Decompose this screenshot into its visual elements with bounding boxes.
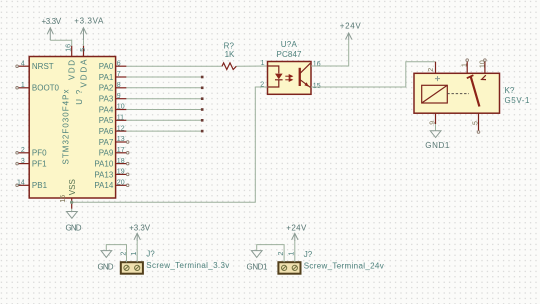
opto pin numbers xyxy=(260,60,320,90)
opto LED triangle xyxy=(275,74,283,80)
svg-text:16: 16 xyxy=(313,61,321,68)
opto transistor base bar xyxy=(299,68,301,86)
opto LED anode path xyxy=(268,66,279,73)
svg-text:PA14: PA14 xyxy=(94,181,114,190)
connector J1 pin numbers xyxy=(120,252,138,256)
connector J2 pin numbers xyxy=(278,252,296,256)
svg-text:4: 4 xyxy=(21,60,25,67)
svg-text:GND1: GND1 xyxy=(247,262,269,271)
connector J2 screw circles xyxy=(282,265,298,270)
svg-text:14: 14 xyxy=(17,180,25,187)
svg-text:15: 15 xyxy=(313,83,321,90)
connector J1 screw circles xyxy=(124,265,140,270)
relay dashed actuator line xyxy=(447,93,469,95)
ground GND at J1 xyxy=(101,251,112,258)
svg-text:VSS: VSS xyxy=(68,179,77,195)
svg-text:PA7: PA7 xyxy=(99,138,114,147)
svg-text:U?A: U?A xyxy=(281,40,298,49)
IC right pin names xyxy=(94,62,114,190)
svg-text:10: 10 xyxy=(117,104,125,111)
svg-text:1: 1 xyxy=(21,82,25,89)
IC left pin numbers xyxy=(17,60,25,186)
svg-text:19: 19 xyxy=(117,169,125,176)
svg-text:+24V: +24V xyxy=(286,224,307,233)
svg-text:GND: GND xyxy=(98,262,114,271)
svg-text:GND1: GND1 xyxy=(425,141,450,150)
wire resistor to opto pin1 xyxy=(236,65,267,67)
svg-text:PA0: PA0 xyxy=(99,62,114,71)
ground GND1 at J2 xyxy=(251,251,262,258)
relay armature xyxy=(471,77,480,107)
svg-text:7: 7 xyxy=(117,71,121,78)
svg-text:10: 10 xyxy=(480,60,487,68)
svg-text:+24V: +24V xyxy=(340,22,362,31)
wire opto pin15 to relay pin2 xyxy=(311,62,436,87)
svg-text:PA4: PA4 xyxy=(99,105,114,114)
svg-text:12: 12 xyxy=(117,125,125,132)
power +3.3VA symbol top xyxy=(74,17,104,41)
svg-text:1K: 1K xyxy=(225,50,235,59)
relay plus mark xyxy=(435,76,440,81)
svg-text:+3.3V: +3.3V xyxy=(129,224,151,233)
svg-text:PA10: PA10 xyxy=(94,160,114,169)
svg-text:2: 2 xyxy=(428,68,435,72)
relay NC contact bar xyxy=(467,75,474,78)
wire J1 pin2 to GND xyxy=(106,245,126,263)
wire J1 pin1 to +3.3V xyxy=(136,240,138,262)
svg-text:J?: J? xyxy=(146,249,155,258)
svg-text:PA1: PA1 xyxy=(99,73,114,82)
svg-text:NRST: NRST xyxy=(32,62,54,71)
IC top pin stubs VDD VDDA xyxy=(72,46,84,57)
connector J1 screw terminal 3.3v body xyxy=(121,262,143,274)
svg-text:6: 6 xyxy=(117,60,121,67)
IC right pin numbers xyxy=(117,60,125,186)
relay pin 1 stub with circle xyxy=(466,59,469,74)
svg-text:PB1: PB1 xyxy=(32,181,48,190)
relay pin 10 stub with circle xyxy=(484,59,487,74)
relay pin 2 stub xyxy=(435,62,437,74)
svg-text:PA13: PA13 xyxy=(94,170,114,179)
svg-text:17: 17 xyxy=(117,147,125,154)
opto U2A PC847 body xyxy=(268,62,312,95)
relay NO contact xyxy=(482,75,486,79)
svg-text:Screw_Terminal_3.3v: Screw_Terminal_3.3v xyxy=(146,261,229,270)
svg-text:Screw_Terminal_24v: Screw_Terminal_24v xyxy=(304,262,384,271)
wire opto pin16 to +24V xyxy=(311,40,349,66)
svg-text:PF1: PF1 xyxy=(32,160,47,169)
opto light arrows xyxy=(285,75,292,81)
svg-text:5: 5 xyxy=(80,48,87,52)
relay coil box xyxy=(422,85,448,103)
relay pin 9 stub xyxy=(435,113,437,124)
svg-text:PA5: PA5 xyxy=(99,116,114,125)
IC top pin numbers 16 5 xyxy=(66,44,88,52)
IC right pin stubs xyxy=(116,66,127,185)
relay coil diagonal xyxy=(422,85,448,103)
IC left pin stubs xyxy=(18,66,29,185)
IC U1 STM32F030F4Px body xyxy=(29,57,115,199)
resistor R1 zigzag xyxy=(222,63,236,70)
wire +3.3VA to VDDA xyxy=(83,40,85,45)
svg-text:GND: GND xyxy=(66,224,82,233)
svg-text:1: 1 xyxy=(462,63,469,67)
svg-text:15: 15 xyxy=(60,195,67,203)
svg-text:18: 18 xyxy=(117,158,125,165)
svg-text:13: 13 xyxy=(117,136,125,143)
wire PA0 to resistor xyxy=(126,65,222,67)
wire relay pin9 to GND1 xyxy=(435,124,437,131)
svg-text:PF0: PF0 xyxy=(32,149,47,158)
svg-text:VDD: VDD xyxy=(67,60,76,80)
svg-text:BOOT0: BOOT0 xyxy=(32,84,60,93)
junction at VSS xyxy=(70,201,73,204)
wire J2 pin1 to +24V xyxy=(294,240,296,262)
ground GND1 under relay xyxy=(430,131,441,138)
opto transistor emitter with arrow xyxy=(300,80,310,88)
IC left pin names xyxy=(32,62,60,190)
svg-text:PA3: PA3 xyxy=(99,95,114,104)
svg-text:K?: K? xyxy=(505,86,515,95)
svg-text:STM32F030F4Px: STM32F030F4Px xyxy=(62,90,71,165)
wire J2 pin2 to GND1 xyxy=(257,245,284,263)
svg-text:+3.3V: +3.3V xyxy=(42,17,62,26)
wire VSS to GND xyxy=(71,209,73,212)
IC bottom pin stub VSS xyxy=(71,198,73,209)
power +24V symbol top xyxy=(340,22,362,41)
power +3.3V symbol top xyxy=(42,17,62,40)
svg-text:PC847: PC847 xyxy=(277,50,303,59)
svg-text:R?: R? xyxy=(224,42,235,51)
svg-text:1: 1 xyxy=(261,60,265,67)
svg-text:8: 8 xyxy=(117,82,121,89)
svg-text:9: 9 xyxy=(117,93,121,100)
svg-text:2: 2 xyxy=(21,147,25,154)
svg-text:PA2: PA2 xyxy=(99,84,114,93)
svg-text:20: 20 xyxy=(117,180,125,187)
svg-text:+3.3VA: +3.3VA xyxy=(74,17,104,26)
svg-text:J?: J? xyxy=(304,250,313,259)
svg-text:3: 3 xyxy=(21,158,25,165)
wire +3.3V to VDD xyxy=(50,40,71,45)
opto transistor collector xyxy=(300,63,310,73)
power +3.3V symbol at J1 xyxy=(129,224,151,241)
svg-text:5: 5 xyxy=(473,121,480,125)
IC left pin dangling circles xyxy=(16,65,19,187)
power +24V symbol at J2 xyxy=(286,224,307,241)
ground GND under IC xyxy=(67,212,78,219)
relay pin 5 stub with circle xyxy=(477,113,480,133)
opto LED cathode bar xyxy=(275,79,283,81)
svg-text:11: 11 xyxy=(117,115,124,122)
connector J2 screw terminal 24v body xyxy=(278,262,300,274)
IC right pin dangling circles PA7 PA9 PA10 PA13 PA14 xyxy=(126,141,129,187)
svg-text:VDDA: VDDA xyxy=(79,59,88,88)
svg-text:G5V-1: G5V-1 xyxy=(505,96,531,105)
svg-text:PA9: PA9 xyxy=(99,149,114,158)
wire opto pin2 to GND net xyxy=(72,87,268,202)
IC top pin names VDD VDDA xyxy=(67,59,88,88)
relay K1 body xyxy=(414,73,500,113)
opto LED cathode path to pin2 xyxy=(268,80,279,87)
svg-text:PA6: PA6 xyxy=(99,127,114,136)
wires PA1-PA6 with dangling square ends xyxy=(126,76,203,133)
